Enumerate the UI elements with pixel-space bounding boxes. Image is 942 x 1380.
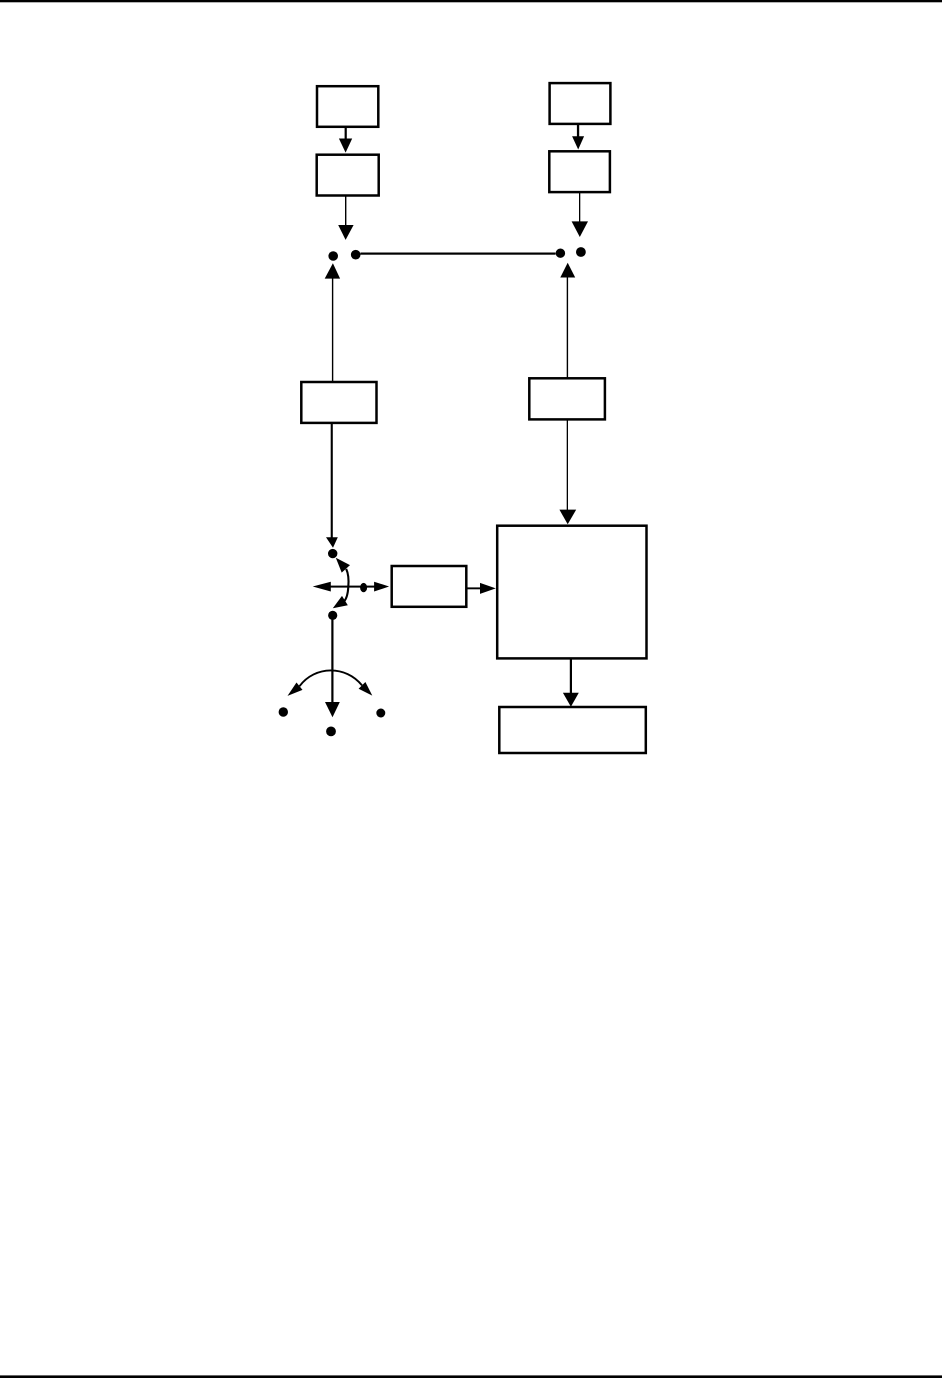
S-curve top arrowhead [336, 558, 350, 573]
box R1 top-right [550, 83, 611, 124]
arrow B2 down to node pair [345, 196, 346, 227]
arc left arrowhead [288, 683, 303, 696]
node dot lower of S-curve [328, 611, 337, 620]
node dot bottom center [326, 727, 336, 737]
box B3 middle-left [301, 382, 376, 423]
wire B3 down to node [331, 423, 333, 538]
arrow SB to BB [466, 587, 481, 589]
S-curve bottom arrowhead [333, 596, 348, 608]
box R2 second-right [549, 151, 610, 192]
left arrowhead of double arrow [313, 582, 331, 592]
arrow R1 to R2 [577, 124, 579, 137]
box BB big right [497, 526, 646, 659]
arc curved double arrow [300, 670, 363, 686]
node dot on double arrow [360, 583, 367, 592]
arrow B1 to B2 [345, 127, 347, 140]
box R3 middle-right [529, 378, 605, 419]
page bottom rule [0, 1375, 942, 1378]
double arrow line at node [330, 586, 376, 588]
arrow node down to bottom dot [331, 615, 333, 702]
node dot upper of S-curve [328, 549, 337, 558]
page top edge bar [0, 0, 942, 2]
S-curve wire hop [344, 569, 349, 602]
node dot right-pair A [556, 249, 565, 258]
box B2 second-left [317, 155, 379, 196]
node dot left-pair A [328, 251, 338, 261]
node dot arc left [279, 707, 288, 716]
arrow R2 down to node pair [579, 192, 580, 223]
arrowhead up at left node [325, 263, 340, 278]
arrowhead down at node dot [326, 537, 338, 548]
arrow BB to WB [570, 658, 572, 693]
node dot right-pair B [576, 247, 586, 257]
wire R3 down to BB [567, 419, 568, 511]
right arrowhead of double arrow [374, 582, 389, 592]
node dot left-pair B [351, 250, 361, 260]
box B1 top-left [317, 86, 378, 127]
connector line between node pairs [361, 253, 556, 255]
arrowhead into BB top [559, 510, 576, 525]
box WB wide bottom [499, 707, 646, 753]
box SB small center [392, 566, 467, 607]
wire R3 up [567, 277, 568, 378]
arrowhead up at right node [560, 263, 575, 278]
arc right arrowhead [359, 682, 373, 696]
node dot arc right [376, 709, 385, 718]
wire B3 up [332, 278, 333, 382]
